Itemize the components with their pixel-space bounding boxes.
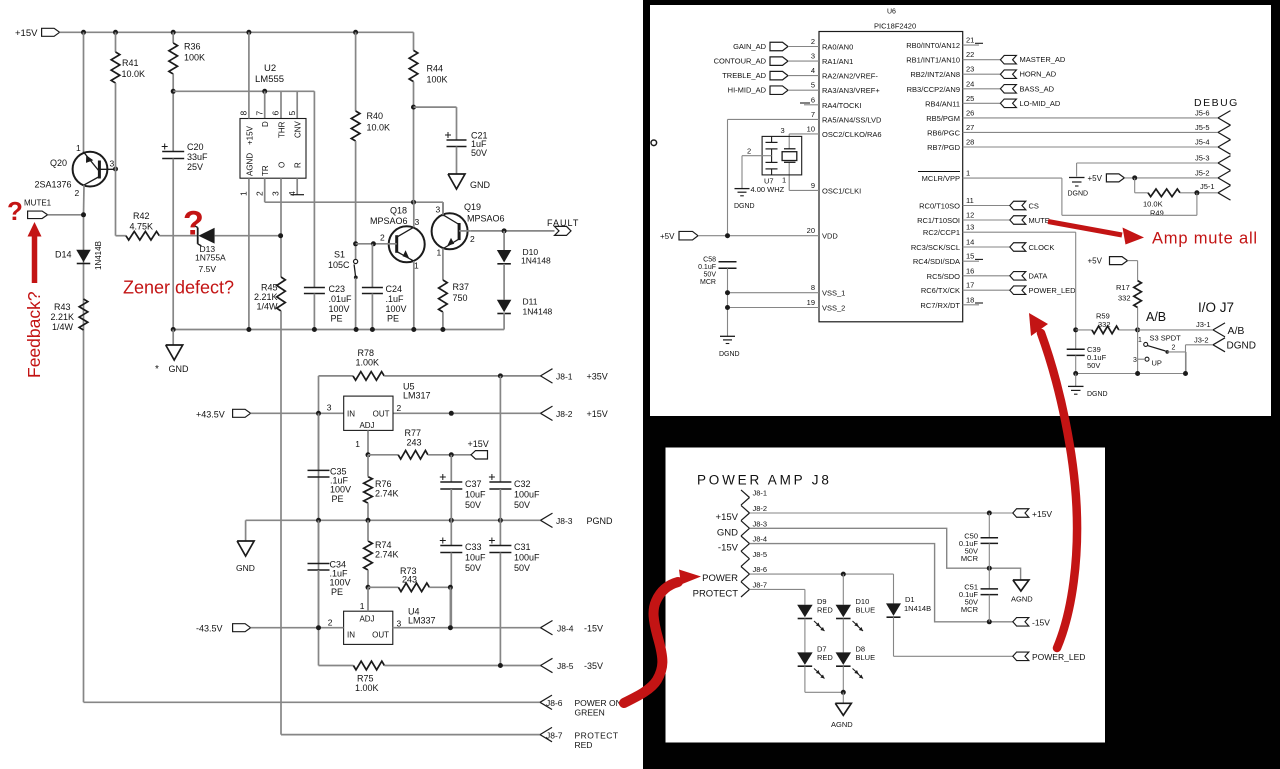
svg-text:+15V: +15V — [587, 409, 608, 419]
svg-text:1: 1 — [966, 169, 970, 178]
svg-text:3: 3 — [811, 52, 815, 61]
svg-text:10.0K: 10.0K — [367, 123, 391, 133]
svg-text:U2: U2 — [264, 63, 276, 74]
svg-text:?: ? — [183, 205, 204, 243]
svg-text:J3-1: J3-1 — [1196, 320, 1211, 329]
svg-text:J5-1: J5-1 — [1200, 182, 1215, 191]
svg-text:MASTER_AD: MASTER_AD — [1020, 55, 1066, 64]
svg-text:4.00 WHZ: 4.00 WHZ — [751, 185, 785, 194]
svg-text:R43: R43 — [54, 302, 71, 312]
svg-text:1/4W: 1/4W — [52, 322, 74, 332]
svg-text:R17: R17 — [1116, 283, 1130, 292]
svg-text:IN: IN — [347, 410, 355, 419]
svg-text:J8-2: J8-2 — [753, 504, 768, 513]
svg-text:J5-3: J5-3 — [1195, 154, 1210, 163]
svg-text:LO-MID_AD: LO-MID_AD — [1020, 99, 1061, 108]
svg-text:1: 1 — [1138, 337, 1142, 344]
svg-text:R77: R77 — [405, 428, 422, 438]
svg-text:100K: 100K — [427, 75, 448, 85]
svg-text:RA2/AN2/VREF-: RA2/AN2/VREF- — [822, 72, 878, 81]
svg-text:7: 7 — [811, 110, 815, 119]
svg-text:BLUE: BLUE — [856, 606, 876, 615]
svg-text:3: 3 — [327, 403, 332, 413]
svg-text:A/B: A/B — [1146, 310, 1166, 324]
svg-text:7.5V: 7.5V — [199, 264, 217, 274]
svg-text:+15V: +15V — [245, 125, 254, 145]
svg-text:.01uF: .01uF — [329, 294, 353, 304]
svg-text:100V: 100V — [330, 578, 351, 588]
svg-text:+43.5V: +43.5V — [196, 410, 225, 420]
svg-text:POWER ON: POWER ON — [575, 698, 622, 708]
svg-text:10: 10 — [807, 124, 815, 133]
svg-text:18: 18 — [966, 295, 974, 304]
svg-text:MUTE: MUTE — [1029, 216, 1050, 225]
svg-text:J8-4: J8-4 — [557, 624, 574, 634]
svg-text:J8-7: J8-7 — [546, 731, 563, 741]
svg-text:3: 3 — [415, 217, 420, 227]
svg-text:RC4/SDI/SDA: RC4/SDI/SDA — [913, 257, 960, 266]
svg-text:Q18: Q18 — [390, 206, 407, 216]
svg-text:PGND: PGND — [587, 516, 614, 526]
svg-text:OUT: OUT — [373, 410, 390, 419]
svg-text:10uF: 10uF — [465, 553, 486, 563]
svg-text:+15V: +15V — [468, 439, 489, 449]
svg-text:GND: GND — [169, 364, 190, 374]
svg-text:3: 3 — [781, 126, 785, 135]
svg-text:19: 19 — [807, 298, 815, 307]
svg-text:50V: 50V — [514, 500, 530, 510]
svg-text:1: 1 — [437, 248, 442, 258]
svg-text:I/O J7: I/O J7 — [1198, 300, 1234, 315]
svg-text:1: 1 — [782, 176, 786, 185]
svg-text:DGND: DGND — [1068, 191, 1089, 198]
svg-text:O: O — [277, 162, 286, 168]
svg-text:R45: R45 — [261, 283, 278, 293]
svg-text:RB2/INT2/AN8: RB2/INT2/AN8 — [910, 70, 960, 79]
svg-text:2.21K: 2.21K — [254, 292, 278, 302]
svg-text:J8-5: J8-5 — [557, 661, 574, 671]
svg-text:DGND: DGND — [734, 203, 755, 210]
svg-text:11: 11 — [966, 196, 974, 205]
svg-text:POWER_LED: POWER_LED — [1029, 286, 1077, 295]
svg-text:Q19: Q19 — [464, 202, 481, 212]
svg-text:1: 1 — [355, 439, 360, 449]
svg-text:1/4W: 1/4W — [256, 302, 278, 312]
svg-text:26: 26 — [966, 108, 974, 117]
svg-text:RC6/TX/CK: RC6/TX/CK — [921, 286, 960, 295]
svg-text:R: R — [294, 162, 303, 168]
svg-text:-15V: -15V — [1032, 618, 1050, 628]
svg-text:DEBUG: DEBUG — [1194, 97, 1239, 109]
svg-text:OSC1/CLKI: OSC1/CLKI — [822, 186, 861, 195]
svg-text:VDD: VDD — [822, 232, 838, 241]
svg-text:PE: PE — [332, 494, 344, 504]
svg-text:1N414B: 1N414B — [94, 241, 103, 270]
svg-text:3: 3 — [110, 159, 115, 169]
svg-text:+15V: +15V — [1032, 509, 1052, 519]
svg-text:A/B: A/B — [1228, 325, 1245, 337]
svg-text:J8-2: J8-2 — [556, 409, 573, 419]
svg-text:R36: R36 — [184, 42, 201, 52]
svg-text:BLUE: BLUE — [856, 653, 876, 662]
svg-text:10uF: 10uF — [465, 490, 486, 500]
svg-text:PE: PE — [331, 314, 343, 324]
svg-text:DGND: DGND — [719, 351, 740, 358]
svg-text:5: 5 — [811, 81, 815, 90]
svg-text:25: 25 — [966, 94, 974, 103]
svg-text:17: 17 — [966, 281, 974, 290]
svg-text:MCR: MCR — [700, 279, 716, 286]
svg-text:2.74K: 2.74K — [375, 550, 399, 560]
svg-text:+35V: +35V — [587, 372, 608, 382]
svg-text:1N4148: 1N4148 — [521, 256, 551, 266]
svg-text:2: 2 — [380, 233, 385, 243]
svg-text:RB1/INT1/AN10: RB1/INT1/AN10 — [906, 56, 960, 65]
svg-text:Zener defect?: Zener defect? — [123, 278, 234, 298]
svg-text:RB5/PGM: RB5/PGM — [926, 114, 960, 123]
svg-text:C33: C33 — [465, 542, 482, 552]
svg-text:RA1/AN1: RA1/AN1 — [822, 57, 853, 66]
svg-text:RB3/CCP2/AN9: RB3/CCP2/AN9 — [907, 85, 960, 94]
svg-text:ADJ: ADJ — [359, 615, 374, 624]
svg-text:-15V: -15V — [718, 543, 739, 554]
svg-text:-15V: -15V — [584, 624, 603, 634]
svg-text:Q20: Q20 — [50, 158, 67, 168]
svg-text:OUT: OUT — [372, 631, 389, 640]
svg-text:4: 4 — [811, 66, 815, 75]
svg-text:PIC18F2420: PIC18F2420 — [874, 22, 916, 31]
svg-text:2: 2 — [75, 188, 80, 198]
svg-text:2.74K: 2.74K — [375, 489, 399, 499]
svg-text:20: 20 — [807, 226, 815, 235]
svg-text:R37: R37 — [453, 282, 470, 292]
svg-text:TR: TR — [261, 165, 270, 176]
svg-text:1N4148: 1N4148 — [523, 307, 553, 317]
svg-text:RC1/T10SOI: RC1/T10SOI — [917, 216, 960, 225]
svg-text:21: 21 — [966, 36, 974, 45]
svg-text:100uF: 100uF — [514, 553, 540, 563]
svg-text:1N414B: 1N414B — [904, 604, 931, 613]
svg-text:4.75K: 4.75K — [130, 222, 154, 232]
svg-text:27: 27 — [966, 123, 974, 132]
svg-text:POWER AMP J8: POWER AMP J8 — [697, 473, 832, 488]
svg-text:J5-5: J5-5 — [1195, 123, 1210, 132]
svg-text:AGND: AGND — [245, 153, 254, 176]
svg-text:9: 9 — [811, 181, 815, 190]
svg-text:RA3/AN3/VREF+: RA3/AN3/VREF+ — [822, 86, 880, 95]
svg-text:28: 28 — [966, 138, 974, 147]
svg-text:8: 8 — [811, 283, 815, 292]
svg-text:50V: 50V — [1087, 361, 1100, 370]
svg-text:24: 24 — [966, 79, 974, 88]
svg-text:MPSAO6: MPSAO6 — [370, 216, 408, 226]
svg-text:C24: C24 — [386, 284, 403, 294]
svg-text:TREBLE_AD: TREBLE_AD — [722, 71, 766, 80]
svg-text:C32: C32 — [514, 479, 531, 489]
svg-text:RC7/RX/DT: RC7/RX/DT — [920, 301, 960, 310]
svg-text:HORN_AD: HORN_AD — [1020, 70, 1057, 79]
svg-text:C58: C58 — [703, 257, 716, 264]
svg-text:243: 243 — [407, 438, 422, 448]
svg-text:+5V: +5V — [1088, 174, 1103, 183]
svg-text:+15V: +15V — [716, 512, 739, 523]
svg-text:RC3/SCK/SCL: RC3/SCK/SCL — [911, 243, 960, 252]
svg-text:5: 5 — [287, 111, 297, 116]
svg-text:243: 243 — [402, 575, 417, 585]
svg-text:RB4/AN11: RB4/AN11 — [925, 99, 960, 108]
svg-text:RC0/T10SO: RC0/T10SO — [919, 202, 960, 211]
svg-text:J8-7: J8-7 — [753, 580, 768, 589]
svg-text:S3 SPDT: S3 SPDT — [1150, 334, 1182, 343]
svg-text:BASS_AD: BASS_AD — [1020, 84, 1055, 93]
svg-text:UP: UP — [1152, 359, 1162, 368]
svg-text:J8-4: J8-4 — [753, 535, 768, 544]
svg-text:S1: S1 — [334, 250, 345, 260]
svg-text:23: 23 — [966, 65, 974, 74]
svg-text:MCLR/VPP: MCLR/VPP — [922, 174, 960, 183]
svg-text:R40: R40 — [367, 111, 384, 121]
svg-text:OSC2/CLKO/RA6: OSC2/CLKO/RA6 — [822, 130, 882, 139]
svg-text:AGND: AGND — [831, 720, 853, 729]
svg-text:MCR: MCR — [961, 554, 979, 563]
svg-text:332: 332 — [1118, 294, 1131, 303]
svg-text:0.1uF: 0.1uF — [698, 264, 716, 271]
svg-text:100K: 100K — [184, 53, 205, 63]
svg-text:POWER: POWER — [702, 573, 738, 584]
svg-text:RC2/CCP1: RC2/CCP1 — [923, 228, 960, 237]
svg-text:2: 2 — [1172, 345, 1176, 352]
svg-text:CLOCK: CLOCK — [1029, 243, 1055, 252]
svg-text:D11: D11 — [523, 297, 538, 307]
svg-text:RB7/PGD: RB7/PGD — [927, 143, 961, 152]
svg-text:D: D — [261, 121, 270, 127]
svg-text:C20: C20 — [187, 142, 204, 152]
svg-text:RA4/TOCKI: RA4/TOCKI — [822, 101, 861, 110]
svg-text:RED: RED — [817, 606, 833, 615]
svg-text:GREEN: GREEN — [575, 708, 605, 718]
svg-text:50V: 50V — [704, 272, 717, 279]
svg-text:1: 1 — [239, 191, 249, 196]
svg-text:C37: C37 — [465, 479, 482, 489]
svg-text:J8-5: J8-5 — [753, 550, 768, 559]
svg-text:Amp mute all: Amp mute all — [1152, 230, 1258, 248]
svg-text:J5-6: J5-6 — [1195, 108, 1210, 117]
svg-text:12: 12 — [966, 211, 974, 220]
svg-text:2SA1376: 2SA1376 — [35, 180, 72, 190]
svg-text:C23: C23 — [329, 284, 346, 294]
svg-text:1: 1 — [414, 261, 419, 271]
svg-text:HI-MID_AD: HI-MID_AD — [728, 86, 767, 95]
svg-text:RA0/AN0: RA0/AN0 — [822, 43, 853, 52]
svg-text:50V: 50V — [465, 500, 481, 510]
svg-text:AGND: AGND — [1011, 595, 1033, 604]
svg-text:25V: 25V — [187, 162, 203, 172]
svg-text:RB0/INT0/AN12: RB0/INT0/AN12 — [906, 41, 960, 50]
svg-text:2.21K: 2.21K — [51, 312, 75, 322]
svg-text:PROTECT: PROTECT — [693, 588, 739, 599]
svg-text:J3-2: J3-2 — [1194, 335, 1209, 344]
svg-text:7: 7 — [254, 111, 264, 116]
svg-text:J8-1: J8-1 — [753, 489, 768, 498]
svg-text:CONTOUR_AD: CONTOUR_AD — [714, 57, 767, 66]
svg-text:750: 750 — [453, 293, 468, 303]
svg-text:6: 6 — [271, 111, 281, 116]
svg-text:RC5/SDO: RC5/SDO — [927, 272, 961, 281]
svg-text:DGND: DGND — [1227, 341, 1256, 352]
svg-text:PROTECT: PROTECT — [575, 731, 619, 741]
svg-text:13: 13 — [966, 223, 974, 232]
svg-text:LM337: LM337 — [408, 616, 436, 626]
svg-text:2: 2 — [397, 403, 402, 413]
svg-text:3: 3 — [1133, 357, 1137, 364]
svg-text:2: 2 — [254, 191, 264, 196]
svg-text:MCR: MCR — [961, 605, 979, 614]
svg-text:D1: D1 — [905, 595, 915, 604]
svg-text:R49: R49 — [1150, 209, 1164, 218]
svg-text:1.00K: 1.00K — [356, 358, 380, 368]
svg-text:CS: CS — [1029, 201, 1039, 210]
svg-text:+15V: +15V — [15, 28, 38, 39]
svg-text:-35V: -35V — [584, 661, 603, 671]
svg-text:R75: R75 — [357, 674, 374, 684]
svg-text:50V: 50V — [514, 563, 530, 573]
svg-text:2: 2 — [470, 234, 475, 244]
svg-text:R41: R41 — [122, 58, 139, 68]
svg-text:105C: 105C — [328, 260, 350, 270]
svg-text:100V: 100V — [386, 304, 407, 314]
svg-text:J5-2: J5-2 — [1195, 168, 1210, 177]
svg-text:LM555: LM555 — [255, 74, 284, 85]
svg-text:RA5/AN4/SS/LVD: RA5/AN4/SS/LVD — [822, 115, 882, 124]
svg-text:50V: 50V — [471, 148, 487, 158]
svg-text:332: 332 — [1098, 320, 1111, 329]
svg-text:1N755A: 1N755A — [195, 253, 226, 263]
svg-text:1: 1 — [76, 143, 81, 153]
svg-text:?: ? — [7, 196, 23, 226]
svg-text:DATA: DATA — [1029, 272, 1048, 281]
svg-text:2: 2 — [328, 618, 333, 628]
svg-text:VSS_1: VSS_1 — [822, 289, 845, 298]
svg-text:10.0K: 10.0K — [122, 69, 146, 79]
svg-text:100V: 100V — [330, 485, 351, 495]
svg-text:6: 6 — [811, 95, 815, 104]
svg-text:3: 3 — [436, 205, 441, 215]
svg-text:THR: THR — [277, 121, 286, 138]
svg-text:100uF: 100uF — [514, 490, 540, 500]
svg-text:RB6/PGC: RB6/PGC — [927, 128, 961, 137]
svg-text:GND: GND — [236, 563, 255, 573]
svg-text:50V: 50V — [465, 563, 481, 573]
svg-text:MPSAO6: MPSAO6 — [467, 214, 505, 224]
svg-text:+5V: +5V — [660, 232, 675, 241]
svg-text:+5V: +5V — [1088, 257, 1103, 266]
svg-text:GAIN_AD: GAIN_AD — [733, 42, 767, 51]
svg-text:1.00K: 1.00K — [355, 683, 379, 693]
svg-text:-43.5V: -43.5V — [196, 624, 223, 634]
svg-text:D14: D14 — [55, 250, 72, 260]
svg-text:10.0K: 10.0K — [1143, 200, 1163, 209]
svg-text:CNV: CNV — [294, 120, 303, 138]
svg-text:R44: R44 — [427, 64, 444, 74]
svg-text:J8-3: J8-3 — [556, 516, 573, 526]
svg-text:15: 15 — [966, 252, 974, 261]
svg-text:MUTE1: MUTE1 — [24, 199, 52, 208]
svg-text:U6: U6 — [887, 9, 896, 16]
svg-text:J5-4: J5-4 — [1195, 138, 1210, 147]
svg-text:J8-6: J8-6 — [753, 565, 768, 574]
svg-text:2: 2 — [747, 147, 751, 156]
svg-text:POWER_LED: POWER_LED — [1032, 652, 1085, 662]
svg-text:2: 2 — [811, 37, 815, 46]
svg-text:22: 22 — [966, 50, 974, 59]
svg-text:PE: PE — [331, 587, 343, 597]
svg-text:14: 14 — [966, 238, 974, 247]
svg-text:1: 1 — [360, 601, 365, 611]
svg-text:ADJ: ADJ — [359, 421, 374, 430]
svg-text:IN: IN — [347, 631, 355, 640]
svg-text:GND: GND — [717, 527, 738, 538]
svg-text:Feedback?: Feedback? — [24, 291, 44, 378]
svg-text:8: 8 — [239, 111, 249, 116]
svg-text:16: 16 — [966, 266, 974, 275]
svg-text:R76: R76 — [375, 479, 392, 489]
svg-text:PE: PE — [387, 314, 399, 324]
svg-text:VSS_2: VSS_2 — [822, 304, 845, 313]
svg-text:C31: C31 — [514, 542, 531, 552]
svg-text:33uF: 33uF — [187, 152, 208, 162]
svg-text:.1uF: .1uF — [386, 294, 405, 304]
svg-text:R74: R74 — [375, 540, 392, 550]
svg-text:GND: GND — [470, 180, 491, 190]
svg-text:J8-6: J8-6 — [546, 698, 563, 708]
svg-text:RED: RED — [817, 653, 833, 662]
svg-text:DGND: DGND — [1087, 391, 1108, 398]
svg-text:3: 3 — [271, 191, 281, 196]
svg-text:LM317: LM317 — [403, 391, 431, 401]
svg-text:J8-3: J8-3 — [753, 519, 768, 528]
svg-text:J8-1: J8-1 — [556, 372, 573, 382]
svg-text:RED: RED — [575, 740, 593, 750]
svg-text:*: * — [155, 364, 159, 375]
svg-text:R42: R42 — [133, 211, 150, 221]
svg-text:R78: R78 — [358, 348, 375, 358]
svg-text:100V: 100V — [329, 304, 350, 314]
